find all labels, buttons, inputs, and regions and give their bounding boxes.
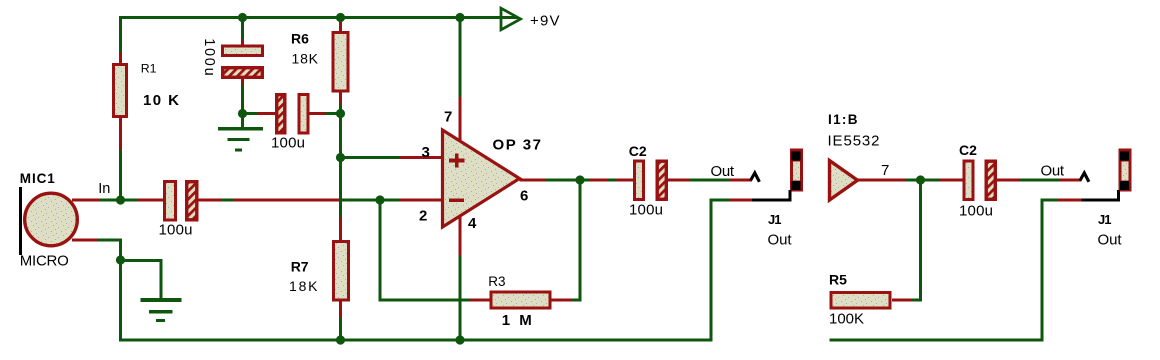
capacitor C? input 100u — [137, 182, 197, 239]
wire: bias node down to pin3 node — [339, 114, 342, 158]
svg-text:C2: C2 — [959, 142, 977, 158]
svg-text:R6: R6 — [291, 31, 309, 47]
svg-text:J1: J1 — [768, 212, 782, 227]
wire: R7 to bottom rail — [339, 318, 342, 342]
svg-text:6: 6 — [520, 188, 528, 205]
svg-text:100K: 100K — [829, 311, 864, 328]
junction dot pin2 node — [375, 195, 384, 204]
svg-text:In: In — [98, 181, 110, 197]
svg-text:Out: Out — [768, 232, 793, 249]
junction dot mic ground node — [116, 255, 125, 264]
svg-text:OP 37: OP 37 — [493, 137, 542, 154]
wire: bottom ground rail left — [119, 339, 713, 342]
wire: op-amp pin 4 down to rail — [459, 215, 462, 342]
resistor R1 — [114, 52, 180, 150]
svg-text:4: 4 — [468, 215, 477, 232]
capacitor C2 right — [959, 142, 995, 220]
microphone MIC1 — [19, 171, 100, 270]
wire: J1 bottom pin to ground drop — [710, 190, 792, 342]
junction dot right output node — [916, 175, 925, 184]
resistor R7 — [289, 218, 349, 319]
junction dot rail at decoupling cap column — [238, 13, 247, 22]
svg-text:MIC1: MIC1 — [20, 171, 55, 186]
junction dot rail at R6 — [336, 13, 345, 22]
resistor R3 — [470, 274, 572, 329]
resistor R6 — [291, 22, 348, 104]
wire: feedback from pin2 node down — [379, 200, 470, 302]
wire: R1 to In node — [119, 150, 122, 202]
svg-text:10 K: 10 K — [143, 92, 179, 109]
wire: R1 column from rail — [119, 16, 122, 52]
junction dot pin3 node — [336, 153, 345, 162]
wire: rail to R6 — [339, 18, 342, 23]
wire: pin3 node down through pin2 wire to R7 — [339, 158, 342, 218]
wire: bias cap to R6 node — [326, 112, 342, 115]
wire: rail down to decoupling cap — [241, 18, 244, 40]
node In label — [98, 181, 110, 197]
capacitor decoupling 100u (vertical) — [201, 38, 263, 84]
wire: C2 right to Out terminal — [997, 179, 1082, 182]
svg-text:2: 2 — [419, 208, 427, 225]
svg-text:IE5532: IE5532 — [828, 133, 880, 150]
svg-text:100u: 100u — [201, 38, 217, 75]
resistor R5 — [829, 272, 912, 328]
junction dot pin4 rail — [455, 335, 464, 344]
wire: R6 bottom to bias node — [339, 104, 342, 114]
connector J1 right — [1098, 149, 1132, 249]
svg-text:7: 7 — [444, 109, 452, 126]
junction dot In node — [116, 195, 125, 204]
svg-text:Out: Out — [711, 163, 735, 180]
svg-text:18K: 18K — [292, 51, 319, 67]
svg-text:3: 3 — [422, 144, 430, 161]
wire: mic node down to bottom rail — [119, 260, 122, 342]
svg-text:100u: 100u — [629, 202, 663, 219]
junction dot output node — [575, 175, 584, 184]
wire: bias node to bias cap — [243, 112, 258, 115]
terminal Out arrow right — [1041, 163, 1089, 182]
ground symbol left — [141, 298, 182, 322]
power terminal +9V — [501, 8, 560, 30]
svg-text:R5: R5 — [829, 272, 847, 288]
junction dot rail at pin7 column — [455, 13, 464, 22]
ground symbol top — [218, 127, 263, 151]
wire: bottom ground rail right — [830, 339, 1044, 342]
wire: I1:B output to C2 right — [858, 179, 963, 182]
capacitor C2 left — [629, 143, 667, 219]
wire: rail down to op-amp pin 7 — [459, 18, 462, 142]
svg-text:R1: R1 — [141, 62, 157, 76]
svg-text:R7: R7 — [291, 259, 309, 275]
wire: mic top pin to In node — [100, 199, 137, 202]
svg-text:Out: Out — [1041, 163, 1065, 180]
junction dot R7 rail — [336, 335, 345, 344]
svg-text:Out: Out — [1098, 232, 1123, 249]
svg-text:J1: J1 — [1098, 212, 1112, 227]
connector J1 left — [768, 149, 804, 249]
svg-text:+9V: +9V — [530, 13, 560, 30]
svg-text:I1:B: I1:B — [828, 112, 858, 127]
wire: op-amp output pin 6 — [520, 179, 634, 182]
wire: mic bottom pin to ground node — [98, 239, 122, 262]
wire: bias node down to ground — [241, 114, 244, 128]
wire: J1 right bottom pin to ground drop — [1041, 190, 1121, 342]
svg-text:MICRO: MICRO — [20, 253, 69, 270]
junction dot R6 bottom node — [336, 109, 345, 118]
wire: R5 to right output node — [912, 180, 923, 302]
wire: R3 to output node — [572, 180, 582, 302]
capacitor bias 100u — [258, 95, 327, 152]
svg-text:7: 7 — [881, 162, 889, 179]
svg-text:100u: 100u — [271, 135, 305, 152]
svg-text:1 M: 1 M — [502, 312, 532, 329]
junction dot bias ground node — [238, 109, 247, 118]
wire: C2 to Out terminal — [668, 179, 752, 182]
svg-text:100u: 100u — [959, 203, 993, 220]
wire: +9V top rail — [119, 16, 518, 19]
svg-text:18K: 18K — [289, 278, 318, 294]
wire: decoupling cap to bias node — [241, 85, 244, 116]
terminal Out arrow left — [711, 163, 760, 182]
op-amp U1 OP 37 — [419, 109, 541, 233]
wire: pin3 node to op-amp pin 3 — [341, 156, 443, 159]
svg-text:C2: C2 — [629, 143, 647, 159]
wire: input cap to pin2 run — [199, 199, 443, 202]
svg-text:100u: 100u — [159, 222, 193, 239]
wire: ground stub from mic node — [119, 259, 163, 299]
svg-text:R3: R3 — [488, 274, 505, 289]
op-amp I1:B IE5532 — [828, 112, 890, 200]
